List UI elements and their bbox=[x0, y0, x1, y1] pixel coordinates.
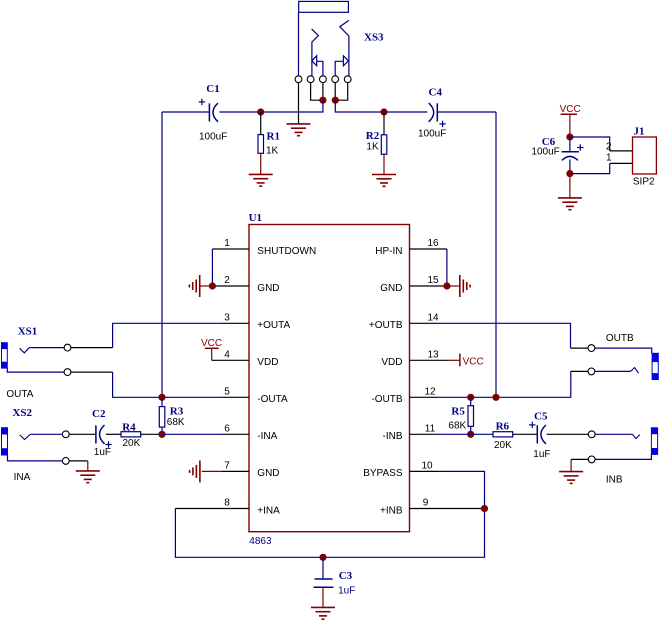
svg-text:XS1: XS1 bbox=[18, 326, 38, 338]
svg-text:7: 7 bbox=[224, 460, 230, 471]
wire XS1 tip bbox=[29, 347, 64, 349]
svg-text:+OUTA: +OUTA bbox=[257, 320, 290, 331]
svg-text:4: 4 bbox=[224, 349, 230, 360]
svg-text:VDD: VDD bbox=[381, 357, 402, 368]
svg-text:6: 6 bbox=[224, 423, 230, 434]
svg-text:2: 2 bbox=[606, 142, 612, 153]
wire XS2 tip bbox=[30, 433, 62, 435]
svg-text:11: 11 bbox=[425, 423, 436, 434]
capacitor C1 bbox=[199, 99, 218, 122]
wire top rail left b bbox=[219, 100, 323, 112]
svg-text:+INB: +INB bbox=[380, 505, 403, 516]
svg-text:INB: INB bbox=[606, 475, 623, 486]
junction R5 bottom bbox=[467, 431, 474, 438]
wire down to ground INB bbox=[570, 459, 572, 471]
wire XS2 tip to C2 bbox=[69, 433, 96, 435]
svg-text:GND: GND bbox=[380, 283, 402, 294]
svg-text:BYPASS: BYPASS bbox=[363, 468, 403, 479]
XS2 tip terminal bbox=[62, 431, 69, 438]
wire VCC to J1 pin2 bbox=[570, 137, 610, 151]
svg-text:HP-IN: HP-IN bbox=[375, 246, 402, 257]
ground at pin15 bbox=[460, 275, 470, 297]
svg-text:U1: U1 bbox=[249, 212, 262, 224]
wire XS1 sleeve to bend bbox=[71, 371, 113, 373]
wire bottom rail right bbox=[323, 509, 485, 558]
wire pin6 bbox=[162, 433, 221, 435]
svg-text:R5: R5 bbox=[451, 406, 465, 418]
junction R3 top bbox=[158, 394, 165, 401]
wire pin14 stub bbox=[410, 322, 439, 324]
svg-text:-INB: -INB bbox=[383, 431, 403, 442]
wire C3 to ground bbox=[322, 587, 324, 607]
capacitor C6 bbox=[562, 137, 584, 174]
wire R6 to C5 bbox=[513, 433, 538, 435]
wire pin6 stub bbox=[221, 433, 249, 435]
wire pin2 ground tail bbox=[200, 285, 213, 287]
capacitor C5 bbox=[529, 422, 546, 444]
wire OUTB tip stub bbox=[571, 347, 588, 349]
svg-text:VCC: VCC bbox=[201, 338, 222, 349]
XS3 terminal pins bbox=[295, 76, 351, 83]
svg-text:SHUTDOWN: SHUTDOWN bbox=[257, 246, 316, 257]
svg-text:XS2: XS2 bbox=[12, 407, 32, 419]
wire INB tip contact bbox=[595, 433, 632, 435]
wire OUTB sleeve contact bbox=[595, 370, 631, 372]
svg-text:SIP2: SIP2 bbox=[633, 177, 655, 188]
svg-text:+INA: +INA bbox=[257, 505, 280, 516]
wire R4 to junction bbox=[141, 433, 162, 435]
connector XS3 headphone jack bbox=[299, 1, 349, 75]
svg-text:R1: R1 bbox=[267, 130, 280, 142]
svg-text:VCC: VCC bbox=[560, 104, 581, 115]
OUTB sleeve terminal bbox=[588, 368, 595, 375]
capacitor C4 bbox=[429, 103, 446, 127]
svg-text:68K: 68K bbox=[167, 417, 185, 428]
wire pin16 stub bbox=[410, 248, 447, 250]
wire pin8 to bottom rail bbox=[175, 509, 323, 558]
XS1 tip terminal bbox=[64, 344, 71, 351]
svg-text:15: 15 bbox=[427, 275, 439, 286]
wire OUTB sleeve stub bbox=[571, 370, 588, 372]
svg-text:5: 5 bbox=[224, 386, 230, 397]
wire pin5 stub bbox=[221, 396, 249, 398]
svg-text:-OUTA: -OUTA bbox=[257, 394, 288, 405]
connector XS1 body bbox=[2, 343, 8, 368]
svg-text:-INA: -INA bbox=[257, 431, 277, 442]
ground under C6 bbox=[558, 198, 582, 210]
svg-text:14: 14 bbox=[427, 312, 439, 323]
wire C6 to J1 pin1 bbox=[570, 163, 610, 173]
wire pin15 stub bbox=[410, 285, 447, 287]
wire pin13 stub bbox=[410, 359, 450, 361]
wire pin3 stub bbox=[221, 322, 249, 324]
svg-text:VDD: VDD bbox=[257, 357, 278, 368]
connector J1 bbox=[633, 137, 657, 174]
wire pin4 stub bbox=[212, 359, 249, 361]
XS1 tip contact bbox=[20, 348, 30, 353]
wire pin10 stub bbox=[410, 470, 439, 472]
wire pin15 ground tail bbox=[447, 285, 460, 287]
svg-text:1uF: 1uF bbox=[94, 447, 111, 458]
wire XS3 sleeve to ground bbox=[298, 83, 300, 124]
svg-text:12: 12 bbox=[424, 386, 436, 397]
junction R5 top bbox=[467, 394, 474, 401]
svg-text:OUTA: OUTA bbox=[6, 389, 33, 400]
svg-text:10: 10 bbox=[421, 460, 433, 471]
junction C3 bbox=[319, 554, 326, 561]
resistor R4 bbox=[121, 432, 141, 437]
XS2 tip contact bbox=[20, 434, 31, 439]
INB contact check bbox=[633, 434, 640, 438]
wire right bus vertical bbox=[495, 112, 497, 397]
junction C6 bottom bbox=[566, 170, 573, 177]
ground under R2 bbox=[372, 175, 396, 187]
svg-text:R3: R3 bbox=[170, 406, 184, 418]
wire to pin3 bbox=[113, 323, 221, 347]
wire pin10 to junction bbox=[438, 471, 485, 508]
wire top rail right bbox=[335, 100, 427, 112]
power VCC pin4 bbox=[201, 338, 222, 360]
wire XS3 pin2 bbox=[311, 83, 323, 101]
wire C6 to ground bbox=[569, 174, 571, 198]
svg-text:2: 2 bbox=[224, 275, 230, 286]
junction right channel bbox=[332, 97, 339, 104]
OUTB contact check bbox=[631, 368, 639, 374]
capacitor C2 bbox=[96, 425, 112, 448]
wire to pin5 bbox=[113, 372, 221, 397]
svg-text:1K: 1K bbox=[366, 141, 379, 152]
wire C5 to INB bbox=[547, 433, 589, 435]
svg-text:J1: J1 bbox=[634, 126, 645, 138]
wire pin7 stub bbox=[222, 470, 249, 472]
wire pin12 to OUTB sleeve bbox=[438, 371, 571, 397]
junction pin15 bbox=[443, 282, 450, 289]
wire C2 to R4 bbox=[106, 433, 121, 435]
ground under XS3 bbox=[287, 124, 311, 136]
wire XS2 sleeve bbox=[8, 455, 63, 461]
op-amp U1 LM4863 body bbox=[249, 225, 410, 532]
junction pin9 pin10 bbox=[481, 505, 488, 512]
wire pin1 to pin2 bbox=[211, 249, 213, 286]
capacitor C3 bbox=[314, 557, 334, 587]
junction C1 R1 bbox=[257, 108, 264, 115]
OUTB tip terminal bbox=[588, 345, 595, 352]
XS1 sleeve terminal bbox=[64, 369, 71, 376]
wire down to ground INA bbox=[87, 461, 89, 471]
junction R3 bottom bbox=[158, 431, 165, 438]
svg-text:1: 1 bbox=[606, 152, 612, 163]
resistor R5 bbox=[468, 397, 474, 434]
svg-text:4863: 4863 bbox=[249, 536, 272, 547]
wire pin7 ground tail bbox=[202, 470, 222, 472]
wire XS3 pin5 bbox=[335, 83, 348, 101]
svg-text:100uF: 100uF bbox=[418, 129, 446, 140]
wire INB sleeve to ground bbox=[571, 458, 588, 460]
svg-text:16: 16 bbox=[427, 238, 439, 249]
wire left bus vertical bbox=[161, 112, 163, 397]
wire J1 pin1 stub bbox=[610, 162, 633, 164]
wire pin8 stub bbox=[175, 508, 249, 510]
junction left channel bbox=[319, 97, 326, 104]
svg-text:C2: C2 bbox=[92, 408, 106, 420]
wire top rail left bbox=[162, 111, 209, 113]
power VCC top right bbox=[560, 104, 581, 137]
svg-text:OUTB: OUTB bbox=[606, 333, 634, 344]
resistor R6 bbox=[493, 432, 513, 437]
junction pin2 bbox=[209, 282, 216, 289]
wire pin11 to R5 bbox=[438, 433, 471, 435]
svg-text:-OUTB: -OUTB bbox=[371, 394, 402, 405]
wire INB sleeve bbox=[595, 454, 651, 459]
connector INB body bbox=[651, 428, 657, 455]
wire XS3 pin4 bbox=[334, 83, 336, 101]
wire OUTB tip to body bbox=[595, 348, 652, 353]
wire pin1 stub bbox=[212, 248, 249, 250]
svg-text:13: 13 bbox=[427, 349, 439, 360]
ground under C3 bbox=[311, 607, 335, 619]
svg-text:C1: C1 bbox=[206, 83, 219, 95]
wire XS2 sleeve to ground bbox=[69, 460, 88, 462]
wire XS3 pin3 bbox=[322, 83, 324, 101]
wire pin16 to pin15 bbox=[446, 249, 448, 286]
svg-text:GND: GND bbox=[257, 283, 279, 294]
svg-text:8: 8 bbox=[224, 498, 230, 509]
svg-text:20K: 20K bbox=[123, 438, 141, 449]
svg-text:R6: R6 bbox=[496, 420, 510, 432]
ground at pin7 bbox=[190, 460, 200, 482]
svg-text:XS3: XS3 bbox=[364, 32, 384, 44]
svg-text:1K: 1K bbox=[266, 145, 279, 156]
junction right bus bbox=[492, 394, 499, 401]
svg-text:INA: INA bbox=[14, 472, 31, 483]
XS2 sleeve terminal bbox=[62, 458, 69, 465]
junction VCC C6 bbox=[566, 133, 573, 140]
wire XS1 tip to bend bbox=[71, 347, 113, 349]
svg-text:C5: C5 bbox=[534, 410, 548, 422]
svg-text:9: 9 bbox=[423, 498, 429, 509]
ground INA bbox=[76, 471, 100, 483]
svg-text:20K: 20K bbox=[494, 440, 512, 451]
INB sleeve terminal bbox=[588, 456, 595, 463]
wire pin9 stub bbox=[410, 508, 485, 510]
svg-text:VCC: VCC bbox=[463, 357, 484, 368]
connector XS2 body bbox=[2, 428, 8, 455]
ground at pin2 bbox=[189, 275, 199, 297]
resistor R2 bbox=[381, 112, 387, 175]
wire pin2 stub bbox=[212, 285, 249, 287]
ground INB bbox=[559, 472, 583, 484]
power VCC pin13 bbox=[449, 354, 484, 368]
svg-text:3: 3 bbox=[224, 312, 230, 323]
wire XS1 sleeve bbox=[7, 368, 64, 372]
resistor R1 bbox=[258, 112, 264, 174]
junction C4 R2 bbox=[380, 108, 387, 115]
wire J1 pin2 stub bbox=[610, 150, 633, 152]
INB tip terminal bbox=[588, 431, 595, 438]
connector OUTB body bbox=[652, 353, 658, 379]
svg-text:+OUTB: +OUTB bbox=[369, 320, 403, 331]
svg-text:GND: GND bbox=[257, 468, 279, 479]
svg-text:1uF: 1uF bbox=[533, 449, 550, 460]
wire R5 to R6 bbox=[471, 433, 493, 435]
svg-text:1uF: 1uF bbox=[338, 586, 355, 597]
svg-text:100uF: 100uF bbox=[199, 132, 227, 143]
svg-text:68K: 68K bbox=[448, 420, 466, 431]
svg-text:R4: R4 bbox=[122, 422, 136, 434]
svg-text:C4: C4 bbox=[429, 86, 443, 98]
wire pin14 to OUTB bbox=[438, 323, 571, 348]
svg-text:1: 1 bbox=[224, 238, 230, 249]
svg-text:C3: C3 bbox=[339, 570, 353, 582]
wire pin11 stub bbox=[410, 433, 439, 435]
wire pin12 stub bbox=[410, 396, 439, 398]
ground under R1 bbox=[249, 174, 273, 186]
svg-text:100uF: 100uF bbox=[531, 146, 559, 157]
wire top rail right b bbox=[437, 111, 496, 113]
resistor R3 bbox=[159, 397, 165, 434]
